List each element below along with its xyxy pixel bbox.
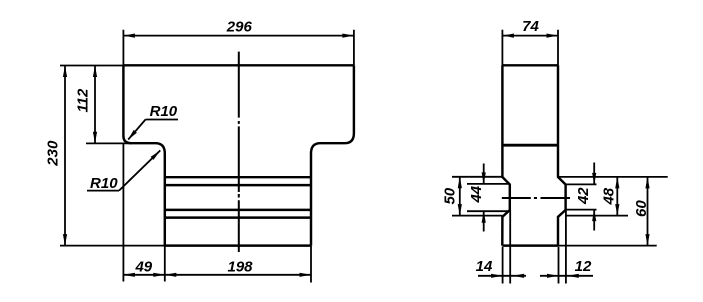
svg-text:42: 42 [575,187,592,205]
svg-text:230: 230 [45,140,62,167]
svg-text:50: 50 [441,187,458,204]
svg-text:198: 198 [227,259,253,276]
svg-text:296: 296 [226,19,253,36]
svg-text:60: 60 [633,200,650,217]
svg-text:14: 14 [476,258,493,275]
svg-text:R10: R10 [90,175,118,192]
svg-text:12: 12 [575,258,592,275]
svg-text:R10: R10 [150,103,178,120]
svg-text:48: 48 [601,187,618,205]
svg-text:44: 44 [468,185,485,203]
svg-text:74: 74 [522,18,539,35]
svg-text:112: 112 [75,88,92,113]
svg-text:49: 49 [134,259,152,276]
